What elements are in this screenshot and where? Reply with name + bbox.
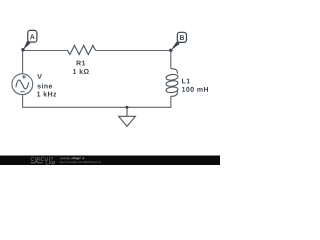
wire: inductor bottom to bottom rail [170, 96, 172, 108]
resistor label R1 [77, 61, 86, 66]
wire: node A down to source + terminal [22, 50, 24, 74]
inductor value 100 mH [182, 87, 208, 92]
wire: source - terminal down to bottom rail [22, 95, 24, 108]
inductor L1 coil [166, 69, 179, 97]
resistor R1 zigzag [67, 45, 95, 54]
footer title [60, 157, 71, 160]
voltage source V circle [12, 74, 33, 95]
circuitlab logo LAB [46, 161, 55, 164]
wire: bottom rail [22, 106, 171, 108]
node flag B box [177, 32, 186, 42]
ground stub [126, 107, 128, 116]
source value sine [37, 83, 52, 88]
circuitlab logo CIRCUIT [31, 157, 54, 161]
inductor label L1 [182, 79, 190, 84]
node label A [30, 34, 35, 39]
ground triangle [119, 116, 136, 126]
junction dot node B [169, 49, 172, 52]
node flag A box [28, 30, 37, 42]
flag tail B [171, 41, 180, 50]
wire: node B down to inductor top [170, 51, 172, 69]
node label B [180, 35, 184, 40]
voltage source minus sign [20, 91, 24, 93]
footer url [60, 161, 101, 163]
junction dot node A [21, 48, 24, 51]
voltage source plus sign [22, 75, 26, 79]
wire: resistor right to node B [95, 50, 170, 52]
source label V [37, 74, 42, 79]
voltage source sine symbol [16, 80, 29, 89]
flag tail A [23, 41, 30, 50]
footer bar [0, 156, 220, 166]
resistor value 1 kOhm [73, 69, 89, 74]
wire: node A to resistor left [23, 50, 67, 52]
junction dot ground [126, 106, 129, 109]
source value 1 kHz [37, 91, 56, 96]
circuitlab logo wave [31, 161, 43, 163]
